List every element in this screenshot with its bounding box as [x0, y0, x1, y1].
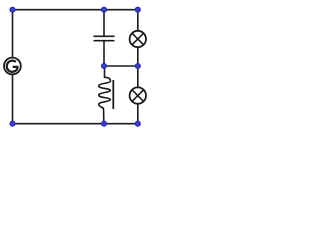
- node D: [101, 63, 106, 68]
- wire right: lamp E1 to node E: [137, 47, 139, 66]
- node F: [10, 121, 15, 126]
- node E: [135, 63, 140, 68]
- capacitor C1: [94, 36, 115, 40]
- node C: [135, 7, 140, 12]
- inductor core bar: [112, 80, 114, 109]
- node A: [10, 7, 15, 12]
- wire left upper: node A to generator: [12, 10, 14, 58]
- wire right lower: lamp E2 to node H: [137, 104, 139, 124]
- wire left lower: generator to node F: [12, 74, 14, 124]
- wire middle: node D to node E: [104, 65, 138, 67]
- node B: [101, 7, 106, 12]
- wire inductor top lead: [104, 66, 106, 78]
- generator G1: [4, 58, 21, 75]
- lamp E2: [130, 87, 146, 103]
- node H: [135, 121, 140, 126]
- wire right: node E to lamp E2: [137, 66, 139, 88]
- wire capacitor bottom lead to node D: [103, 41, 105, 66]
- wire bottom: node F to node H: [13, 123, 138, 125]
- wire top: node A to node C: [13, 9, 138, 11]
- node G2: [101, 121, 106, 126]
- wire capacitor top lead: [103, 10, 105, 36]
- lamp E1: [130, 31, 146, 47]
- wire right upper: node C to lamp E1: [137, 10, 139, 31]
- inductor L1 coil: [99, 77, 111, 123]
